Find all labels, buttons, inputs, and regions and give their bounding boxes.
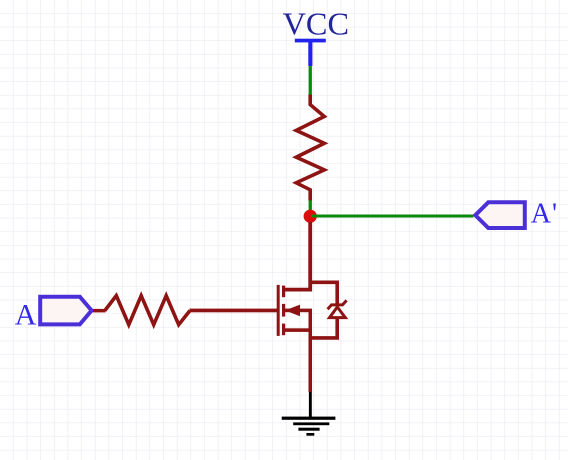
port A' [475,202,525,228]
wire source to ground [309,310,313,392]
wire port A to resistor R2 [93,309,106,313]
port A [40,297,91,325]
wire resistor R2 to gate [190,309,278,313]
wire drain tee to body diode (top) [309,282,338,304]
svg-text:A: A [15,298,37,331]
svg-text:VCC: VCC [283,6,349,42]
wire node to port A' (green) [311,215,474,218]
wire resistor to node (green) [309,200,312,229]
transistor Q1 NMOS [277,285,312,336]
node junction dot [304,210,317,223]
wire node to drain [284,222,311,290]
resistor R2 (gate series, horizontal) [105,296,190,325]
power symbol VCC [295,39,326,66]
resistor R1 (pull-up, vertical) [296,95,324,201]
ground [282,392,336,436]
wire VCC to resistor (green) [309,66,312,95]
zener body diode D1 [309,300,347,338]
svg-text:A': A' [531,198,558,229]
